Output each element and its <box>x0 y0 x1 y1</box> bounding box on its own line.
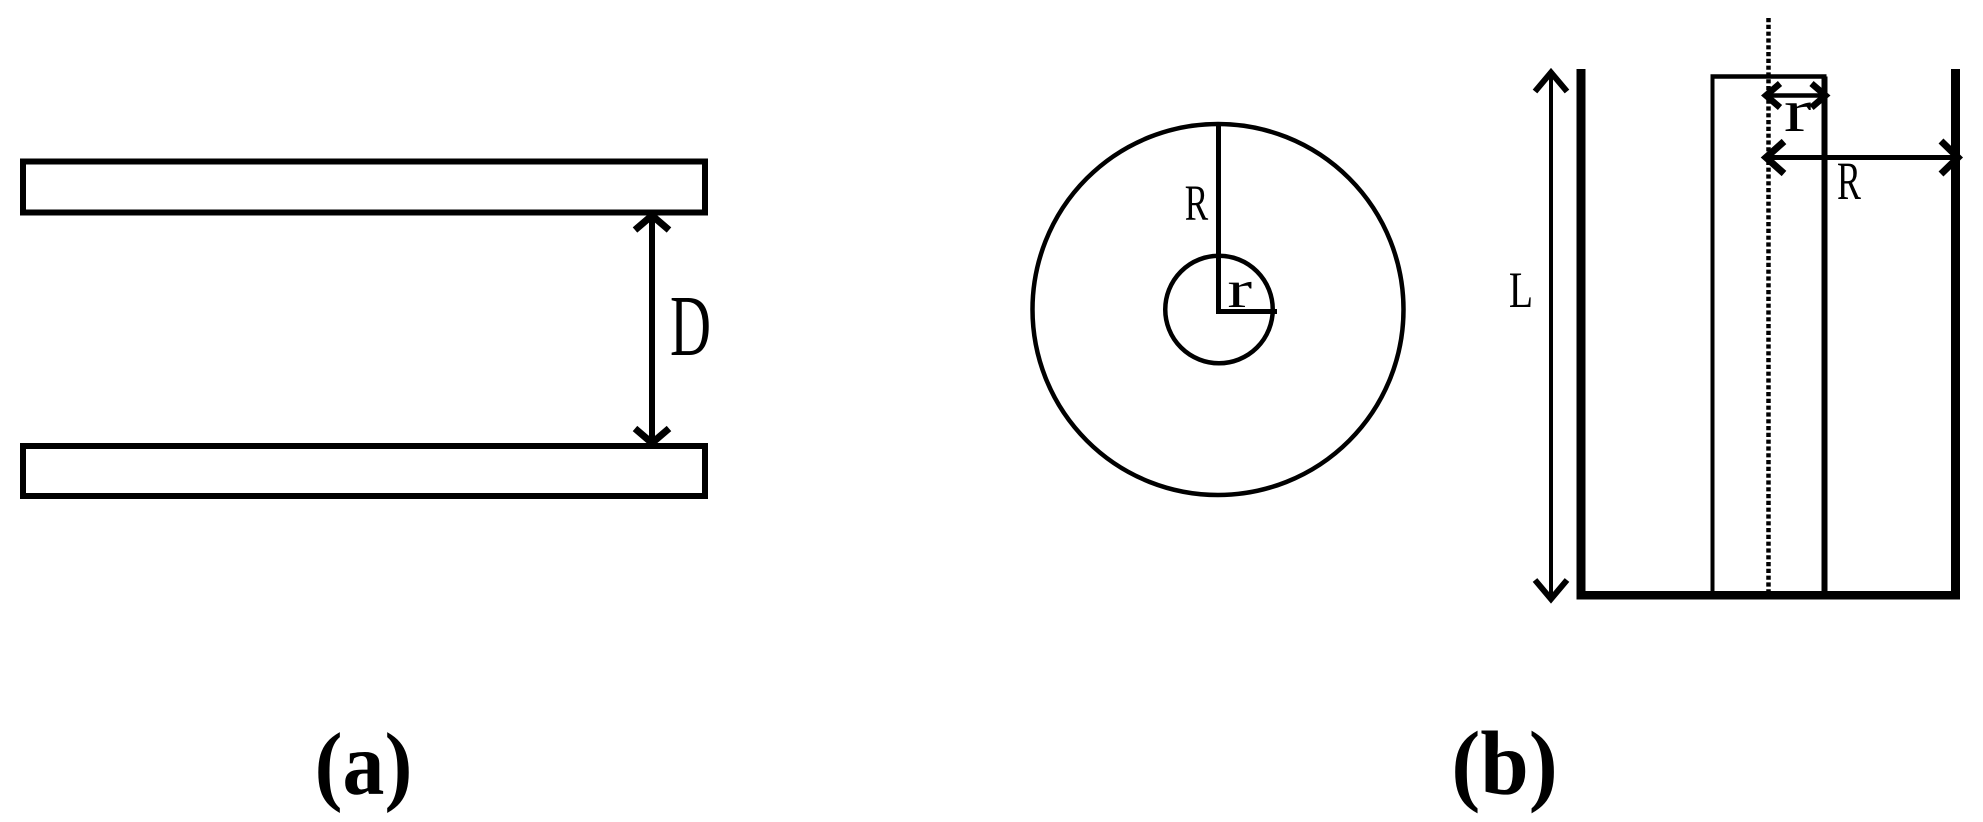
label r side view <box>1784 78 1812 144</box>
arrowhead up at top plate <box>635 216 669 231</box>
caption (a) <box>315 715 413 814</box>
label r circle <box>1227 260 1252 318</box>
center dashed axis line <box>1766 18 1771 595</box>
svg-text:(b): (b) <box>1451 714 1557 814</box>
radius arrow R shaft <box>1766 155 1958 160</box>
svg-text:L: L <box>1509 261 1533 318</box>
inner cylinder top edge <box>1711 74 1827 79</box>
gap dimension arrow D shaft <box>649 216 655 442</box>
cup right wall <box>1951 69 1960 595</box>
cup left wall <box>1577 69 1586 595</box>
arrowhead left of R arrow <box>1766 142 1784 174</box>
arrowhead left of r arrow <box>1766 84 1780 108</box>
radius line R vertical <box>1216 123 1221 314</box>
caption (b) <box>1451 714 1557 814</box>
label R circle <box>1185 176 1209 232</box>
svg-text:(a): (a) <box>315 715 413 814</box>
arrowhead down of L <box>1535 580 1567 599</box>
label D <box>670 278 711 374</box>
outer circle <box>1033 124 1404 495</box>
radius arrow r shaft <box>1766 93 1826 98</box>
label R side view <box>1837 151 1861 211</box>
bottom plate (a) <box>23 446 705 496</box>
inner cylinder left edge <box>1711 77 1715 594</box>
top plate (a) <box>23 162 705 213</box>
arrowhead right of r arrow <box>1812 84 1826 108</box>
inner circle <box>1165 256 1273 364</box>
cup bottom <box>1577 591 1961 600</box>
arrowhead right of R arrow <box>1941 141 1958 174</box>
svg-text:r: r <box>1784 78 1812 144</box>
arrowhead up of L <box>1535 73 1567 92</box>
svg-text:R: R <box>1185 176 1209 232</box>
label L <box>1509 261 1533 318</box>
svg-text:D: D <box>670 278 711 374</box>
radius line r horizontal <box>1216 309 1277 314</box>
length arrow L shaft <box>1549 74 1553 597</box>
arrowhead down at bottom plate <box>635 429 669 444</box>
inner cylinder right edge <box>1822 77 1828 594</box>
svg-text:R: R <box>1837 151 1861 211</box>
svg-text:r: r <box>1227 260 1252 318</box>
